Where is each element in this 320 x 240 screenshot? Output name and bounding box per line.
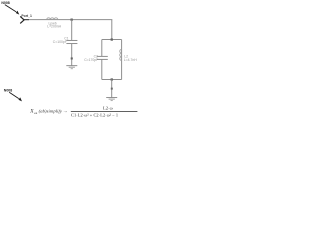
label Lpwb [49,21,57,25]
wire: top rail down to C1 [71,20,73,41]
ground (left) [66,66,77,69]
formula arrow [63,109,68,114]
svg-text:L2·ω: L2·ω [103,106,113,111]
ground (right) [106,98,117,101]
svg-text:C1·L2·ω² + C2·L2·ω² − 1: C1·L2·ω² + C2·L2·ω² − 1 [71,113,118,118]
value label L=200nH [47,25,61,29]
label C2 [94,54,98,58]
wire: C2 to bottom rail [101,59,103,79]
port U1 label Port_1 [21,14,32,18]
svg-text:N008: N008 [1,1,9,5]
wire: L2 branch vertical [121,40,123,80]
svg-text:L=4.7nH: L=4.7nH [124,58,137,62]
capacitor C1 [66,40,77,43]
inductor Lpwb (series, horizontal coil) [47,18,58,20]
annotation arrow pointing to Port_1 [5,5,19,15]
node junction dot on bottom rail [111,78,113,80]
formula denominator [71,113,118,118]
svg-text:C=170pF: C=170pF [84,58,98,62]
label L2 [124,54,128,58]
annotation arrow pointing to formula [9,92,22,101]
inductor L2 (vertical coil) [120,49,122,60]
wire: main top rail (port to corner) [29,19,112,21]
svg-text:C=100pF: C=100pF [53,40,67,44]
value label C=100pF [53,40,67,44]
wire: bottom rail of parallel branch [102,78,122,80]
node junction dot at split [111,38,113,40]
svg-text:N008: N008 [4,88,12,92]
node dot above left ground [71,57,73,59]
svg-text:→: → [63,109,68,114]
formula numerator L2*w [103,106,113,111]
wire: corner vertical and split rail [102,20,122,40]
capacitor C2 [97,56,108,59]
wire: down to C2 [101,40,103,57]
svg-text:Port_1: Port_1 [21,14,32,18]
port P1 symbol (chevron) [20,16,29,23]
svg-text:(ab)simplify: (ab)simplify [39,109,63,114]
node junction dot at C1 tap [71,19,73,21]
wire: C1 to ground [71,44,73,66]
formula lhs X_ea(ab) simplify [29,109,63,115]
formula fraction bar [71,111,138,113]
label C1 [64,37,68,41]
wire: bottom rail to ground [111,79,113,97]
svg-text:ea: ea [34,111,38,115]
node label N008 (top-left annotation text) [1,1,9,5]
node label N008 (bottom-left annotation text) [4,88,12,92]
node dot above right ground [111,88,113,90]
svg-text:L=200nH: L=200nH [47,25,61,29]
value label C=170pF [84,58,98,62]
value label L=4.7nH [124,58,137,62]
